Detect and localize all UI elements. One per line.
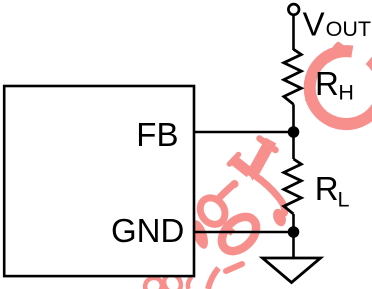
- svg-text:L: L: [338, 187, 350, 211]
- node GND junction: [288, 226, 300, 238]
- wire FB node to RL: [292, 132, 295, 159]
- node FB junction: [288, 126, 300, 138]
- svg-text:R: R: [315, 170, 339, 207]
- wire RH to FB node: [292, 104, 295, 132]
- wire VOUT terminal to RH: [292, 14, 295, 50]
- wire GND pin to node: [195, 231, 295, 234]
- wire GND node to ground: [292, 232, 295, 258]
- IC box U1: [4, 86, 194, 276]
- terminal VOUT: [288, 4, 299, 15]
- svg-text:H: H: [338, 80, 354, 104]
- wire RL to GND node: [292, 214, 295, 232]
- ground: [263, 258, 321, 283]
- svg-text:GND: GND: [111, 212, 184, 249]
- svg-text:V: V: [303, 6, 325, 43]
- resistor RL: [284, 159, 302, 214]
- wire FB pin to node: [195, 131, 295, 134]
- svg-text:FB: FB: [136, 116, 178, 153]
- svg-text:R: R: [315, 65, 339, 102]
- svg-text:OUT: OUT: [326, 17, 371, 41]
- resistor RH: [284, 49, 302, 104]
